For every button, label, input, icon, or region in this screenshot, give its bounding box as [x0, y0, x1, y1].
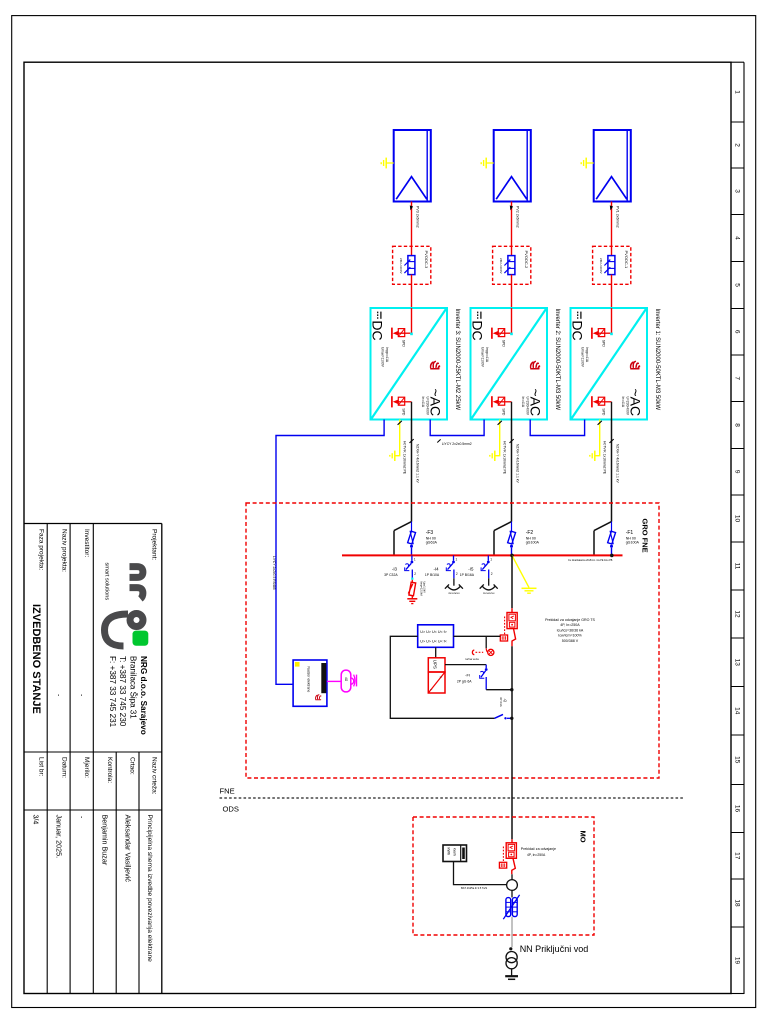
svg-text:Naziv crteža:: Naziv crteža: — [151, 757, 158, 795]
main switch -Q (Prekidac za odvajanje GRO TS) — [500, 608, 517, 646]
switch -Q 3P on measuring loop — [495, 697, 512, 720]
svg-text:NRG d.o.o. Sarajevo: NRG d.o.o. Sarajevo — [139, 656, 148, 735]
svg-text:10: 10 — [734, 515, 741, 523]
svg-text:PVODC-1: PVODC-1 — [624, 251, 629, 270]
svg-text:7: 7 — [734, 376, 741, 380]
title block values — [30, 604, 153, 962]
svg-text:-I4: -I4 — [433, 566, 439, 571]
svg-text:Faza projekta:: Faza projekta: — [37, 529, 44, 570]
current transformer — [503, 890, 519, 919]
company address block — [108, 656, 148, 735]
svg-text:2: 2 — [456, 572, 458, 576]
svg-text:1: 1 — [414, 558, 416, 562]
svg-text:14: 14 — [734, 707, 741, 715]
node: bus junction at -F1 — [610, 554, 614, 558]
svg-text:3/4: 3/4 — [32, 815, 39, 825]
svg-text:ručna veza: ručna veza — [465, 657, 479, 661]
svg-text:500/388 V: 500/388 V — [562, 639, 579, 643]
svg-text:Icu/Ics=36/36 kA: Icu/Ics=36/36 kA — [557, 628, 584, 632]
fuse designator -F2 — [526, 530, 540, 545]
svg-text:T: +387 33 745 230: T: +387 33 745 230 — [118, 656, 127, 727]
node: connection point — [509, 944, 588, 954]
svg-text:1P B/16A: 1P B/16A — [460, 573, 475, 577]
svg-text:Datum:: Datum: — [60, 757, 67, 778]
wire: utility connection (grey) — [511, 917, 513, 947]
svg-text:Nadzor elektrane: Nadzor elektrane — [307, 667, 311, 693]
svg-text:FNE: FNE — [220, 787, 235, 796]
svg-text:LiYCY 2x2x0.5mm2: LiYCY 2x2x0.5mm2 — [442, 442, 472, 446]
title block labels — [37, 529, 157, 795]
utility disconnect breaker (Prekidac za odvajanje) — [499, 839, 556, 874]
svg-text:16: 16 — [734, 805, 741, 813]
string cable labels — [416, 206, 620, 228]
svg-text:Up≤1.5kV: Up≤1.5kV — [422, 582, 426, 594]
wire: meter to measuring point — [454, 862, 507, 890]
svg-text:4P, In=250A: 4P, In=250A — [560, 623, 580, 627]
-Q rating text — [545, 618, 595, 643]
svg-text:NN Priključni vod: NN Priključni vod — [520, 944, 589, 954]
svg-text:U> U> U< U< f>: U> U> U< U< f> — [420, 630, 447, 634]
svg-text:Mjerilo:: Mjerilo: — [83, 757, 90, 778]
svg-text:MO: MO — [579, 831, 588, 843]
FNE / ODS boundary — [220, 787, 686, 814]
svg-text:-F2: -F2 — [526, 530, 534, 536]
breaker -I4 with outlet — [425, 555, 463, 594]
svg-text:Crtao:: Crtao: — [129, 757, 136, 775]
svg-text:9: 9 — [734, 470, 741, 474]
svg-text:za rezervu: za rezervu — [483, 592, 495, 595]
svg-text:Aleksandar Vasiljević: Aleksandar Vasiljević — [123, 815, 132, 883]
svg-text:6: 6 — [734, 330, 741, 334]
svg-text:kWh: kWh — [447, 848, 451, 856]
svg-text:UPS: UPS — [433, 660, 438, 669]
svg-text:smart solutions: smart solutions — [103, 563, 109, 601]
wire: bus earthing (yellow) — [512, 555, 537, 593]
svg-text:Inverter 1: SUN2000-50KTL-M3 5: Inverter 1: SUN2000-50KTL-M3 50kW — [654, 309, 660, 411]
svg-text:GRO FNE: GRO FNE — [640, 519, 649, 553]
distribution transformer — [505, 952, 518, 980]
svg-text:3P 63A: 3P 63A — [499, 697, 503, 707]
smart logger (Nadzor elektrane) — [293, 660, 327, 706]
svg-text:Januar, 2025.: Januar, 2025. — [55, 815, 64, 859]
GRO FNE cabinet (dashed) — [246, 503, 659, 778]
svg-text:3: 3 — [734, 189, 741, 193]
svg-text:19: 19 — [734, 957, 741, 965]
node: junction on main — [510, 717, 513, 720]
SPD surge arrester to earth — [407, 578, 426, 604]
inverter designators — [454, 309, 660, 411]
MO metering cabinet (dashed) — [413, 817, 594, 935]
svg-text:18: 18 — [734, 899, 741, 907]
PV string 3 (PV panel, PVODC-3, inverter 3) — [370, 130, 447, 555]
svg-text:PVODC-3: PVODC-3 — [424, 251, 429, 270]
svg-text:-F1: -F1 — [626, 530, 634, 536]
fuse designator -F3 — [426, 530, 438, 545]
svg-text:PV3 2x6mm2: PV3 2x6mm2 — [416, 206, 420, 228]
svg-text:-F3: -F3 — [426, 530, 434, 536]
svg-text:2: 2 — [491, 572, 493, 576]
svg-text:Branilaca Šipa 31: Branilaca Šipa 31 — [129, 656, 138, 719]
svg-text:17: 17 — [734, 852, 741, 860]
svg-text:gG63A: gG63A — [426, 541, 438, 545]
svg-text:-FI: -FI — [465, 673, 470, 678]
svg-text:1: 1 — [456, 558, 458, 562]
energy meter kWh — [443, 845, 467, 862]
busbar (red) — [342, 555, 623, 562]
title block grid — [24, 524, 162, 994]
wire: RS485 comm inverter2-inverter1 (blue) — [530, 420, 584, 436]
svg-text:PVODC-2: PVODC-2 — [524, 251, 529, 270]
svg-text:Principijelna shema izvedbe po: Principijelna shema izvedbe povezivanja … — [146, 815, 153, 963]
svg-text:3P C32A: 3P C32A — [384, 573, 398, 577]
grid protection relay — [418, 625, 454, 648]
wire: RS485 comm inverter3-inverter2 (blue) — [430, 420, 484, 446]
UPS unit — [428, 658, 445, 693]
svg-text:Prekidač za odvajanje: Prekidač za odvajanje — [521, 847, 556, 851]
svg-text:Icw/Icm=100%: Icw/Icm=100% — [558, 634, 582, 638]
svg-text:Benjamin Buzar: Benjamin Buzar — [101, 815, 110, 866]
svg-text:za rezervu: za rezervu — [448, 592, 460, 595]
GSM antenna (magenta) — [327, 670, 357, 692]
svg-text:IZVEDBENO STANJE: IZVEDBENO STANJE — [30, 604, 42, 714]
svg-text:8: 8 — [734, 423, 741, 427]
PVODC designators — [424, 251, 629, 270]
wire: bus to -Q main switch — [511, 555, 513, 608]
svg-text:15: 15 — [734, 756, 741, 764]
wire: RS485 comm inverter3 to logger (blue) — [272, 420, 384, 685]
svg-text:13: 13 — [734, 659, 741, 667]
svg-text:5: 5 — [734, 283, 741, 287]
svg-text:2: 2 — [414, 572, 416, 576]
svg-text:gG100A: gG100A — [526, 541, 540, 545]
wire: relay to UPS — [435, 647, 437, 658]
svg-text:12: 12 — [734, 610, 741, 618]
breaker -I5 with outlet — [460, 555, 498, 594]
PV string 2 (PV panel, PVODC-2, inverter 2) — [470, 130, 547, 555]
svg-text:kvarh: kvarh — [453, 848, 457, 856]
svg-text:1P B/10A: 1P B/10A — [425, 573, 440, 577]
ruler strip with cells 1-19 — [731, 62, 744, 994]
svg-text:PV1 2x6mm2: PV1 2x6mm2 — [616, 206, 620, 228]
measuring point circle — [507, 874, 518, 890]
svg-text:Inverter 2: SUN2000-50KTL-M3 5: Inverter 2: SUN2000-50KTL-M3 50kW — [554, 309, 560, 411]
manual operation linkage — [465, 636, 494, 661]
wire: UPS supply with -FI breaker — [445, 665, 512, 690]
svg-text:LiYCY 2x2x0.5 RS485: LiYCY 2x2x0.5 RS485 — [272, 556, 276, 590]
svg-text:List br:: List br: — [37, 757, 44, 777]
svg-text:BAT d/d/5a ili 3.5 TwS: BAT d/d/5a ili 3.5 TwS — [461, 886, 487, 890]
svg-text:1: 1 — [490, 558, 492, 562]
breaker -I3 with SPD branch — [384, 555, 416, 577]
svg-text:Cu šina/bakarna 20x5mm i za PE: Cu šina/bakarna 20x5mm i za PE šinu PB — [568, 559, 613, 562]
svg-text:Naziv projekta:: Naziv projekta: — [60, 529, 67, 572]
wire: main feeder down — [511, 646, 513, 839]
svg-text:Investitor:: Investitor: — [83, 529, 90, 557]
svg-text:Inverter 3: SUN2000-25KTL-M2 2: Inverter 3: SUN2000-25KTL-M2 25kW — [454, 309, 460, 411]
svg-text:U> U> U< U< f<: U> U> U< U< f< — [420, 640, 447, 644]
svg-text:2: 2 — [734, 143, 741, 147]
svg-text:4: 4 — [734, 236, 741, 240]
svg-text:ODS: ODS — [223, 805, 239, 814]
svg-text:F: +387 33 745 231: F: +387 33 745 231 — [108, 656, 117, 728]
svg-text:1: 1 — [734, 90, 741, 94]
svg-text:4G: 4G — [344, 677, 348, 682]
PV string 1 (PV panel, PVODC-1, inverter 1) — [570, 130, 647, 555]
NRG company logo — [103, 563, 148, 647]
fuse designator -F1 — [626, 530, 640, 545]
node: junction — [510, 688, 513, 691]
svg-text:Kontrola:: Kontrola: — [106, 757, 113, 783]
wire: relay measuring loop — [390, 636, 494, 718]
svg-text:PV2 2x6mm2: PV2 2x6mm2 — [516, 206, 520, 228]
svg-text:2P gG 6A: 2P gG 6A — [457, 680, 472, 684]
svg-text:-I5: -I5 — [468, 566, 474, 571]
svg-text:-I3: -I3 — [392, 566, 398, 571]
svg-text:gG100A: gG100A — [626, 541, 640, 545]
svg-text:4P, In=250A: 4P, In=250A — [527, 853, 546, 857]
svg-text:11: 11 — [734, 563, 741, 570]
svg-text:Prekidač za odvajanje GRO TS: Prekidač za odvajanje GRO TS — [545, 618, 595, 622]
svg-text:Projektant:: Projektant: — [151, 529, 158, 560]
wire: relay to -Q motor drive — [454, 635, 501, 637]
node: bus junction at -F2 — [510, 554, 514, 558]
